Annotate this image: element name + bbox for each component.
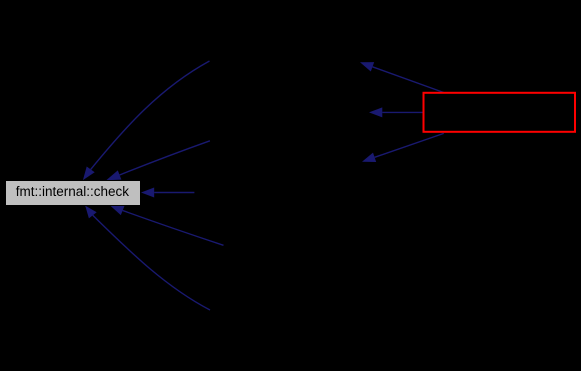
svg-text:fmt::internal::check: fmt::internal::check [16, 184, 130, 199]
